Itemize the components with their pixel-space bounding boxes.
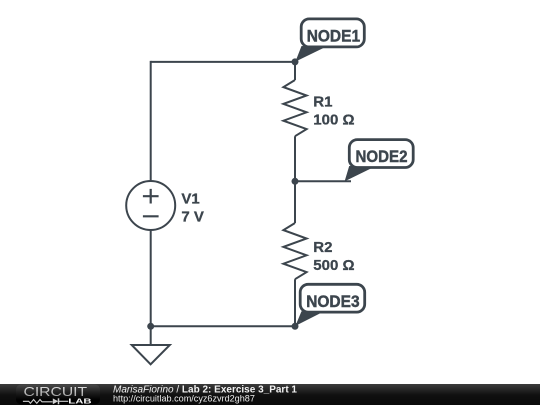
svg-text:7 V: 7 V — [181, 208, 204, 225]
label V1 value "V1 / 7 V" — [181, 190, 204, 225]
footer bar — [0, 384, 540, 405]
attribution line 1: author / title — [113, 385, 297, 396]
wire top horizontal from V1 branch to NODE1 — [151, 61, 295, 63]
resistor R2 — [283, 223, 306, 279]
label R2 value "R2 / 500 Ω" — [313, 239, 354, 274]
CircuitLab logo wordmark LAB — [68, 396, 91, 405]
voltage source V1 — [126, 181, 175, 230]
node NODE2 (junction dot, flag tail, label box) — [292, 140, 414, 185]
svg-text:100 Ω: 100 Ω — [313, 112, 354, 129]
ground — [132, 326, 170, 364]
svg-text:R1: R1 — [313, 94, 332, 111]
svg-text:500 Ω: 500 Ω — [313, 257, 354, 274]
svg-text:V1: V1 — [181, 190, 199, 207]
wire right vertical NODE2 to R2 top — [294, 181, 296, 223]
wire NODE2 horizontal stub — [295, 180, 351, 182]
label R1 value "R1 / 100 Ω" — [313, 94, 354, 129]
wire right vertical R1 bottom to NODE2 — [294, 136, 296, 181]
CircuitLab logo wordmark CIRCUIT — [24, 384, 88, 399]
attribution line 2: url — [113, 394, 255, 404]
wire bottom horizontal (ground rail) — [151, 325, 295, 327]
CircuitLab logo background pill — [16, 385, 100, 405]
wire left vertical lower (V1 bottom to ground rail) — [150, 230, 152, 326]
junction dot at ground rail — [147, 323, 154, 330]
wire left vertical upper (NODE1 rail to V1 top) — [150, 61, 152, 181]
svg-text:NODE1: NODE1 — [307, 28, 360, 46]
svg-text:NODE2: NODE2 — [356, 148, 408, 166]
wire right vertical R2 bottom to NODE3 — [294, 279, 296, 326]
svg-text:R2: R2 — [313, 239, 332, 256]
node NODE3 (junction dot, flag tail, label box) — [292, 284, 365, 330]
CircuitLab logo resistor-diode squiggle — [23, 398, 68, 404]
wire right vertical stub NODE1 to R1 top — [294, 62, 296, 80]
svg-text:NODE3: NODE3 — [306, 293, 359, 311]
svg-text:http://circuitlab.com/cyz6zvrd: http://circuitlab.com/cyz6zvrd2gh87 — [113, 394, 255, 404]
resistor R1 — [283, 80, 306, 136]
node NODE1 (junction dot, flag tail, label box) — [292, 19, 365, 66]
svg-text:LAB: LAB — [68, 396, 91, 405]
